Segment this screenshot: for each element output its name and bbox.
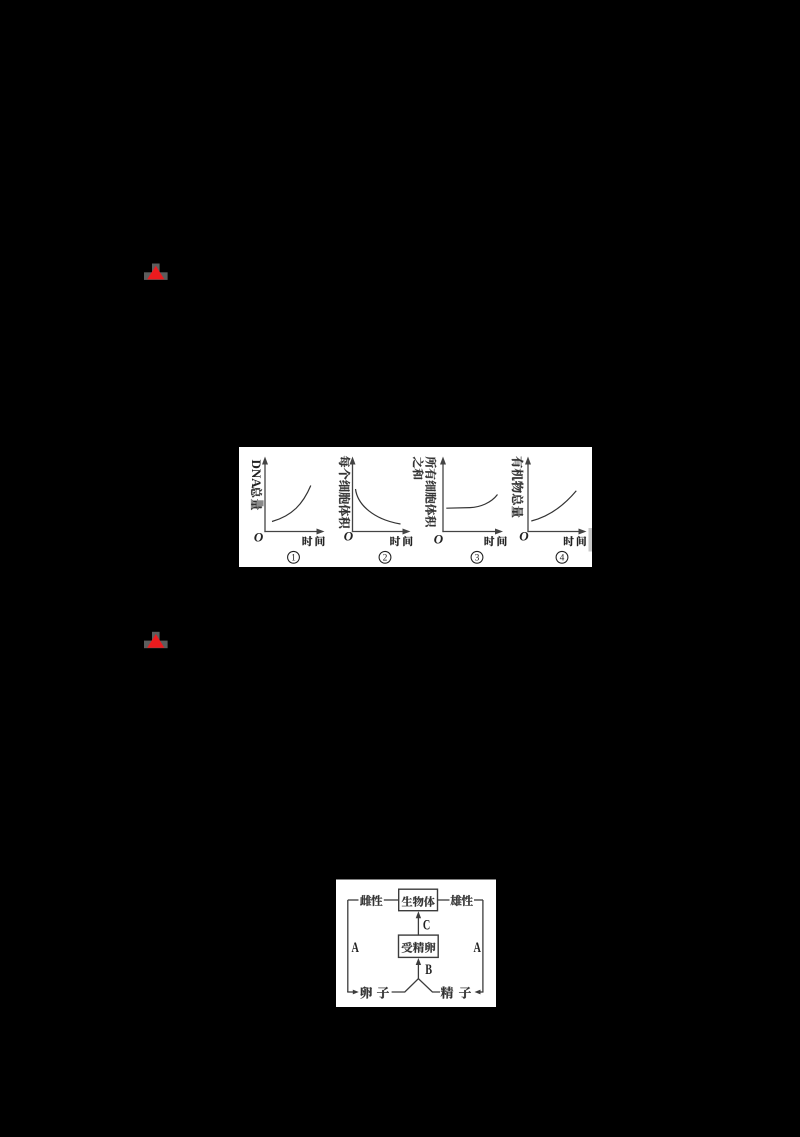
svg-text:C: C (423, 917, 430, 933)
svg-text:2: 2 (383, 554, 388, 564)
svg-text:1: 1 (291, 554, 296, 564)
svg-text:3: 3 (475, 554, 480, 564)
svg-text:O: O (434, 531, 444, 546)
svg-text:A: A (474, 939, 481, 955)
svg-text:DNA: DNA (249, 460, 264, 489)
svg-text:O: O (254, 530, 264, 545)
svg-text:B: B (425, 961, 432, 977)
svg-text:A: A (352, 939, 359, 955)
svg-text:O: O (519, 529, 529, 544)
svg-text:4: 4 (560, 554, 565, 564)
svg-text:O: O (344, 529, 354, 544)
